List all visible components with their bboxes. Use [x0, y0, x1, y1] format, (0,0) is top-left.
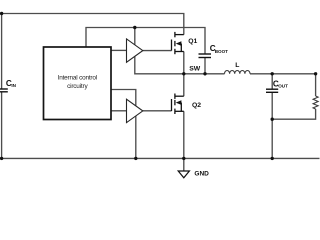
- svg-text:GND: GND: [194, 171, 209, 178]
- wire Q1 gate: [143, 50, 172, 52]
- node C_OUT resistor junction: [271, 118, 274, 121]
- wire C_BOOT bottom lead to SW: [204, 58, 206, 74]
- svg-text:OUT: OUT: [278, 83, 288, 88]
- svg-text:BOOT: BOOT: [215, 49, 228, 54]
- wire driver U1 input from box: [111, 49, 127, 51]
- transistor Q2: [172, 94, 184, 115]
- wire boot supply into driver U1: [134, 28, 136, 46]
- svg-text:Q2: Q2: [192, 102, 201, 109]
- capacitor C_BOOT: [199, 54, 212, 58]
- wire BOOT line from control box to C_BOOT: [86, 28, 205, 55]
- inductor L: [225, 71, 251, 74]
- transistor Q1: [172, 32, 184, 54]
- wire Q1 source to Q2 drain vertical: [183, 52, 185, 97]
- wire VIN rail: [0, 14, 184, 35]
- svg-text:Internal control: Internal control: [58, 75, 97, 82]
- wire driver U2 supply from box: [111, 90, 136, 106]
- wire driver U2 input from box: [111, 110, 127, 112]
- svg-text:Q1: Q1: [188, 38, 197, 45]
- node VIN bottom corner: [0, 157, 3, 160]
- wire SW node horizontal run: [184, 73, 225, 75]
- op-amp U1 high-side driver: [127, 39, 143, 62]
- node SW junction: [182, 72, 185, 75]
- node VIN corner: [0, 12, 3, 15]
- node C_OUT ground: [271, 157, 274, 160]
- wire C_IN bottom to ground rail: [1, 92, 3, 158]
- node boot tap: [133, 26, 136, 29]
- wire driver U2 return to ground: [135, 116, 137, 158]
- resistor load: [313, 96, 318, 109]
- wire load resistor bottom lead to C_OUT: [272, 109, 315, 119]
- svg-text:SW: SW: [189, 66, 201, 73]
- wire GND stem: [183, 158, 185, 171]
- ground: [178, 171, 189, 178]
- op-amp U2 low-side driver: [127, 99, 143, 122]
- node C_BOOT to SW: [203, 72, 206, 75]
- wire VIN left drop to C_IN: [1, 14, 3, 90]
- node C_OUT top: [271, 72, 274, 75]
- svg-text:IN: IN: [11, 83, 16, 88]
- wire C_OUT top lead: [271, 74, 273, 89]
- capacitor C_OUT: [266, 89, 278, 92]
- node Q2 source ground: [182, 157, 185, 160]
- node resistor top: [314, 72, 317, 75]
- wire Q2 gate: [143, 110, 172, 112]
- capacitor C_IN: [0, 89, 8, 92]
- wire driver U1 return to SW: [135, 56, 184, 74]
- wire SW output run after inductor: [250, 73, 317, 75]
- wire C_OUT bottom lead to ground rail: [271, 92, 273, 158]
- wire Q2 source to ground rail: [183, 111, 185, 158]
- wire ground rail: [2, 157, 320, 159]
- node driver U2 ground: [134, 157, 137, 160]
- wire load resistor top lead: [315, 74, 317, 96]
- control box: [44, 47, 112, 120]
- svg-text:L: L: [235, 62, 239, 69]
- svg-text:circuitry: circuitry: [67, 83, 88, 90]
